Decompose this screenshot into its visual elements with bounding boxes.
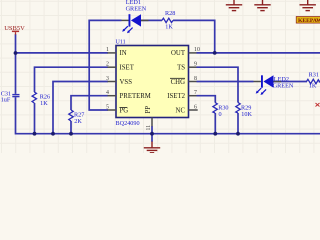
svg-text:PG: PG (120, 107, 129, 114)
svg-text:2: 2 (106, 62, 109, 68)
svg-text:ISET: ISET (120, 65, 135, 72)
svg-text:KEEPAWA: KEEPAWA (298, 18, 320, 24)
svg-text:0: 0 (219, 111, 222, 118)
svg-text:6: 6 (194, 104, 197, 110)
svg-text:IN: IN (120, 50, 127, 57)
svg-text:1: 1 (106, 47, 109, 53)
svg-text:11: 11 (146, 125, 152, 131)
svg-text:2K: 2K (74, 118, 82, 125)
svg-text:5: 5 (106, 104, 109, 110)
svg-text:1K: 1K (40, 100, 48, 107)
svg-text:PP: PP (145, 106, 152, 114)
svg-text:GREEN: GREEN (273, 83, 294, 90)
svg-text:10K: 10K (241, 111, 252, 118)
svg-text:VSS: VSS (120, 79, 133, 86)
svg-text:3: 3 (106, 76, 109, 82)
svg-text:8: 8 (194, 76, 197, 82)
svg-text:1K: 1K (165, 23, 173, 30)
svg-text:CHG: CHG (171, 79, 185, 86)
svg-text:OUT: OUT (171, 50, 186, 57)
svg-text:GREEN: GREEN (126, 5, 147, 12)
svg-text:1K: 1K (309, 82, 317, 89)
svg-text:R28: R28 (165, 10, 175, 17)
svg-text:PRETERM: PRETERM (120, 93, 151, 100)
svg-text:9: 9 (194, 62, 197, 68)
svg-text:R31: R31 (309, 72, 319, 79)
svg-text:1uF: 1uF (1, 97, 11, 104)
svg-text:TS: TS (177, 65, 185, 72)
svg-text:ISET2: ISET2 (167, 93, 185, 100)
svg-text:U11: U11 (116, 40, 126, 46)
svg-text:BQ24090: BQ24090 (116, 120, 140, 127)
svg-text:4: 4 (106, 90, 109, 96)
svg-text:7: 7 (194, 90, 197, 96)
svg-text:NC: NC (176, 107, 186, 114)
svg-text:10: 10 (194, 47, 200, 53)
